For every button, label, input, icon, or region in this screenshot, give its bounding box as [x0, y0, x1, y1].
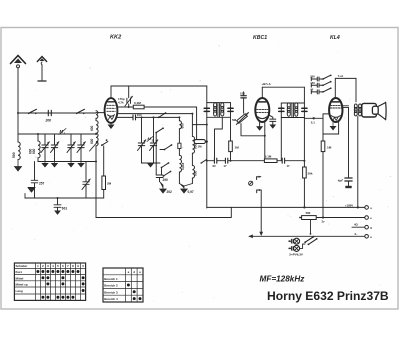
junction — [57, 197, 59, 199]
switch S1a — [28, 109, 37, 114]
svg-text:Bereich 2: Bereich 2 — [104, 284, 118, 288]
svg-text:u: u — [139, 270, 141, 274]
switch osc b — [160, 144, 172, 150]
wire osc switch rail x156 — [155, 133, 157, 164]
wire OT bottom down — [357, 117, 359, 208]
wire U2 lead 2 to bus — [264, 122, 266, 161]
svg-text:600: 600 — [194, 170, 198, 176]
ground under C2 — [52, 162, 58, 168]
osc varcap C6 — [150, 116, 158, 163]
tube U2 anode bar — [259, 101, 266, 103]
tone switch row 1 — [310, 75, 331, 82]
output transformer secondary coil — [359, 104, 362, 116]
svg-text:5,1: 5,1 — [311, 120, 315, 124]
wire top rail to OT — [335, 77, 356, 79]
wire U1 cathode ground — [108, 123, 114, 128]
IFT1 top wire — [207, 102, 231, 104]
svg-text:Mittel sp: Mittel sp — [16, 283, 28, 287]
speaker body — [362, 103, 377, 117]
variable capacitor C2 — [51, 134, 59, 162]
resistor 0,1M on bus — [264, 159, 277, 163]
scan speckle texture — [0, 0, 1, 1]
output transformer primary coil — [354, 104, 357, 116]
wire U3 grid right double — [342, 106, 348, 108]
IFT2 secondary coil — [295, 103, 298, 116]
svg-text:100: 100 — [240, 91, 245, 95]
svg-text:5M: 5M — [232, 118, 237, 122]
resistor 0,1M — [133, 105, 144, 109]
wire switch feed from bus — [310, 220, 312, 234]
svg-text:d: d — [133, 270, 135, 274]
tube U3 heater — [333, 118, 338, 121]
IFT1 right capacitor — [228, 108, 233, 111]
switch S1b — [76, 109, 85, 114]
resistor small series — [178, 143, 181, 148]
ground 202 — [160, 182, 167, 194]
terminal circle g — [365, 225, 369, 229]
wire tuned bus y134 — [18, 133, 96, 135]
wire left column — [17, 113, 19, 142]
wire grid y117.4 with series cap 100 — [117, 116, 179, 118]
wire U1 anode to HT rail — [110, 86, 112, 98]
svg-text:60: 60 — [213, 164, 217, 168]
variable capacitor C4 — [77, 134, 85, 162]
switch osc c — [161, 162, 170, 168]
junction dots long bus — [322, 216, 324, 218]
speaker cone — [378, 103, 385, 120]
tube U2 grid — [257, 109, 268, 112]
pickup circle symbol — [249, 181, 253, 185]
table left texts — [16, 264, 85, 293]
IFT2 left capacitor — [279, 108, 284, 111]
wire U2 cathode leads — [259, 122, 261, 126]
svg-text:202: 202 — [167, 190, 173, 194]
table right dots — [127, 284, 142, 301]
svg-text:Bereich 4: Bereich 4 — [104, 297, 118, 301]
resistor 1M osc to IFT1 — [194, 107, 208, 144]
capacitor end bar A2 — [38, 80, 46, 82]
terminal circle u — [365, 235, 369, 239]
table left dots — [36, 270, 84, 299]
svg-text:+180V: +180V — [345, 203, 353, 207]
terminal circle e — [365, 216, 369, 220]
ground 0,97 — [179, 184, 192, 194]
antenna coil La mid 600 — [96, 121, 98, 134]
ground under C3 — [68, 162, 74, 168]
antenna A2 — [37, 57, 46, 65]
wire AF line y236.3 — [249, 235, 365, 237]
switch table left — [14, 263, 85, 300]
svg-text:Kurz: Kurz — [16, 270, 23, 274]
svg-text:4,7k: 4,7k — [118, 100, 124, 104]
ground under C1 — [42, 162, 48, 168]
IFT1 secondary coil — [221, 103, 224, 116]
svg-text:Bereich 3: Bereich 3 — [104, 290, 118, 294]
series capacitor 17 — [225, 158, 227, 163]
tone switch row 2 — [310, 81, 331, 88]
wire U2 anode up — [261, 87, 263, 98]
tube U3 cathode — [331, 116, 340, 118]
terminal circle a — [365, 206, 369, 210]
tube U1 cathode — [108, 115, 115, 116]
junction — [95, 133, 97, 135]
wire to bus — [230, 152, 232, 161]
capacitor 200 series — [48, 110, 51, 115]
wire osc to IFT1 y124.6 — [192, 124, 206, 126]
junction node tuned bus — [37, 133, 39, 135]
svg-text:0,1M: 0,1M — [134, 101, 141, 105]
wire osc cap ground bus — [142, 162, 161, 164]
IFT1 right wire from rail — [230, 103, 232, 141]
wire HT rail right y87.2 — [262, 86, 304, 88]
trimmer grid cap 170p — [125, 86, 133, 108]
arrow left end AF line — [249, 234, 253, 238]
svg-text:17: 17 — [287, 164, 291, 168]
svg-text:0,618: 0,618 — [181, 162, 185, 170]
svg-text:17: 17 — [224, 164, 228, 168]
tone switch row 3 — [310, 87, 331, 94]
tube U2 cathode — [258, 117, 267, 119]
osc coil LoA top 600 — [178, 116, 181, 143]
svg-text:601: 601 — [62, 207, 68, 211]
trimmer capacitor — [82, 162, 90, 199]
arrow onto AF line — [259, 232, 263, 236]
switch osc d — [163, 171, 172, 177]
tube U2 KBC1 envelope — [255, 98, 269, 122]
wire HT out line y207.4 — [207, 206, 365, 208]
svg-text:0,1M: 0,1M — [265, 154, 272, 158]
antenna A1 — [11, 56, 26, 68]
coil L2 600/600 — [38, 134, 40, 162]
tube U1 grids — [107, 105, 115, 111]
ground — [15, 160, 22, 171]
svg-text:Schalter: Schalter — [16, 264, 29, 268]
svg-text:600: 600 — [90, 125, 94, 131]
svg-text:KL4: KL4 — [330, 35, 340, 41]
wire U3 left lead — [323, 114, 329, 141]
junction — [303, 160, 305, 162]
tube U3 anode bar — [332, 101, 339, 103]
svg-text:290: 290 — [163, 178, 169, 182]
antenna coil La upper 600 — [96, 111, 98, 121]
svg-text:50k: 50k — [308, 172, 313, 176]
series capacitor 17b — [282, 158, 284, 163]
wire U3 lead down-left — [323, 122, 339, 134]
dial lamp 1 — [288, 238, 299, 244]
svg-text:1M: 1M — [327, 146, 332, 150]
potentiometer 5M — [236, 113, 248, 125]
bus y160.7 — [207, 160, 305, 162]
IFT2 top wire — [281, 102, 304, 104]
wire volume arm — [260, 190, 262, 234]
capacitor 100 grid U2 — [241, 92, 246, 113]
svg-text:200: 200 — [45, 119, 52, 123]
resistor 1M under U3 — [321, 141, 325, 152]
svg-text:Horny E632 Prinz37B: Horny E632 Prinz37B — [267, 289, 389, 303]
wire ground bus y161.5 — [38, 161, 96, 163]
svg-text:KK2: KK2 — [110, 35, 122, 41]
svg-text:2M: 2M — [107, 182, 112, 186]
capacitor 290 — [156, 163, 163, 181]
wire long bus y217.5 — [96, 207, 231, 217]
wire tone switch to U3 top — [334, 78, 336, 98]
wire grid U3 y118.3 — [304, 117, 323, 119]
wire antenna A2 lead — [41, 65, 43, 80]
wire x96 column to lower buses — [95, 162, 97, 218]
resistor 50k — [303, 167, 307, 178]
wire pot bottom jog to U2 lead — [241, 124, 265, 136]
IFT2 left wire — [280, 103, 282, 161]
svg-text:600: 600 — [90, 138, 94, 144]
ground at bus start — [25, 188, 35, 199]
tube U3 KL4 envelope — [329, 98, 342, 122]
switch table right — [103, 268, 143, 302]
speaker magnet — [372, 106, 378, 114]
variable capacitor C1 — [41, 134, 49, 162]
svg-text:600: 600 — [32, 148, 36, 154]
wire resistor to bus — [322, 152, 324, 218]
capacitor 4uF — [345, 107, 352, 188]
svg-text:0,97: 0,97 — [188, 190, 194, 194]
capacitor 100 series — [133, 115, 136, 120]
svg-text:7+A: 7+A — [338, 74, 344, 78]
svg-text:1M: 1M — [235, 146, 240, 150]
ground under C4 — [78, 162, 84, 168]
IFT1 left capacitor — [204, 108, 209, 111]
IFT2 right capacitor — [302, 108, 307, 111]
wire IFT1 secondary return jog — [215, 117, 223, 158]
capacitor 257 — [31, 162, 38, 199]
junction — [17, 112, 19, 114]
ground under osc caps — [148, 163, 154, 167]
coil L1 500 — [18, 142, 20, 160]
variable capacitor C3 — [67, 134, 75, 162]
svg-text:2~: 2~ — [355, 232, 359, 236]
wire grid2 y113.6 — [117, 113, 192, 115]
svg-text:500: 500 — [12, 152, 16, 158]
osc varcap C5 — [138, 116, 146, 163]
IFT2 primary coil — [287, 103, 290, 116]
power switch arms — [304, 236, 317, 246]
svg-text:600: 600 — [181, 123, 185, 129]
resistor 1M under IFT1 — [229, 141, 233, 152]
junction dots bus — [206, 160, 208, 162]
svg-text:580: 580 — [306, 211, 311, 215]
IFT1 bottom wire — [207, 116, 231, 118]
tube U3 grids — [330, 105, 341, 108]
IFT2 right wire — [303, 87, 305, 167]
wire anode feed y107 — [117, 106, 196, 108]
tube U1 KK2 envelope — [105, 98, 118, 123]
svg-text:Lang: Lang — [16, 289, 23, 293]
resistor 2M — [102, 176, 106, 198]
svg-text:Bereich 1: Bereich 1 — [104, 277, 118, 281]
capacitor 601 to ground — [54, 198, 61, 214]
table right texts — [104, 270, 141, 301]
IFT2 core — [292, 104, 294, 117]
osc coil LoB top 600 — [191, 113, 194, 166]
svg-text:Mittel: Mittel — [16, 276, 24, 280]
resistor 580 on bus — [300, 217, 301, 219]
wire lamps join — [300, 244, 305, 248]
wire terminal e row — [316, 217, 365, 219]
IFT1 left wire — [206, 86, 208, 208]
wire HT rail y86 — [111, 85, 207, 87]
phono pickup hooks — [257, 176, 261, 180]
svg-text:3v: 3v — [322, 220, 325, 224]
svg-text:4µF: 4µF — [337, 178, 343, 182]
osc coil LoB bottom 600 — [192, 165, 194, 183]
wire 50k down — [303, 178, 305, 207]
antenna coil La lower 600 — [96, 133, 98, 161]
junction 5,1 — [313, 117, 315, 119]
wire OT drop — [355, 78, 357, 101]
IFT1 core — [218, 103, 220, 116]
wire U3 cathode ground — [330, 122, 336, 130]
tube U1 heater — [108, 117, 113, 120]
tube U1 anode bar — [108, 101, 115, 103]
wire lower bus y198 — [25, 197, 104, 199]
capacitor U2 right + ground — [270, 115, 276, 128]
svg-text:2×PV6,3V: 2×PV6,3V — [289, 252, 303, 256]
svg-text:257: 257 — [39, 182, 45, 186]
dial lamp 2 — [288, 245, 299, 251]
IFT1 primary coil — [214, 103, 217, 116]
wire antenna A1 down lead — [17, 68, 19, 113]
switch tick at bus start — [202, 160, 207, 163]
switch osc a — [155, 127, 164, 133]
wire band-switch row y113 — [18, 112, 105, 114]
svg-text:MF=128kHz: MF=128kHz — [260, 275, 306, 284]
terminal 4ohm line — [352, 226, 365, 228]
scan speckle texture — [8, 33, 391, 301]
trimmer arrow on coil — [90, 142, 98, 152]
ground U2 left — [257, 127, 263, 131]
svg-text:+B7+A: +B7+A — [262, 82, 272, 86]
svg-text:KBC1: KBC1 — [253, 35, 267, 41]
switch under U1 — [101, 139, 108, 176]
svg-text:1M: 1M — [198, 145, 203, 149]
series capacitor 60 — [214, 158, 216, 163]
IFT2 bottom wire — [281, 117, 304, 119]
osc coil LoA bottom 0,618 — [179, 149, 181, 184]
